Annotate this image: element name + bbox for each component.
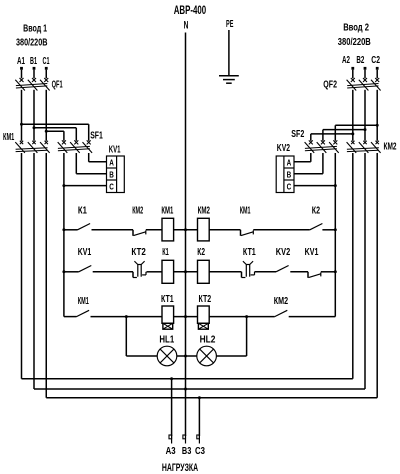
wire KM2 coil to KM1 contact	[209, 229, 240, 231]
contact КТ1 (time)	[241, 272, 243, 278]
lamp HL2	[197, 346, 217, 366]
relay KV1 box	[107, 156, 125, 193]
wire KV1 to KT2 contact	[93, 271, 133, 273]
junction tap A2	[351, 132, 354, 135]
wire tap C2 to SF2 pole3	[335, 124, 377, 126]
wire left control rail	[63, 153, 65, 317]
svg-text:380/220В: 380/220В	[338, 36, 371, 48]
breaker QF1	[15, 70, 49, 91]
breaker SF2	[305, 140, 339, 153]
coil KM1	[162, 218, 174, 241]
breaker QF2	[347, 70, 381, 91]
wire phase B2 vertical	[364, 90, 366, 141]
junction tap A1	[20, 123, 23, 126]
svg-text:В2: В2	[356, 55, 364, 66]
junction bus B3 drop	[184, 388, 187, 391]
ground PE line	[228, 30, 230, 76]
svg-text:KV2: KV2	[277, 143, 290, 154]
wire rail to KV2 C	[294, 185, 335, 187]
wire KV2 to KV1 contact	[290, 271, 308, 273]
contact КМ2 (NC)	[132, 230, 134, 236]
svg-text:KV2: KV2	[276, 247, 291, 258]
coil KT1 (time relay)	[162, 306, 174, 323]
contact K2 (NO)	[310, 224, 323, 230]
svg-text:N: N	[184, 20, 189, 32]
svg-text:К1: К1	[78, 206, 87, 217]
svg-text:HL1: HL1	[159, 335, 174, 346]
wire phase A1 vertical	[21, 90, 23, 141]
svg-text:В3: В3	[182, 445, 192, 457]
contact КМ1 (NC)	[240, 230, 242, 236]
wire tap B1 to SF1 pole2	[34, 127, 76, 129]
junction rail KV1 C	[62, 184, 65, 187]
node N vertical line	[185, 33, 187, 437]
svg-text:В: В	[109, 169, 114, 179]
svg-text:А1: А1	[17, 56, 25, 67]
junction N row3	[184, 315, 187, 318]
coil K1	[162, 260, 174, 283]
wire row2 rail to KV1	[64, 271, 79, 273]
junction rail row1 left	[62, 228, 65, 231]
contactor KM2 main contacts	[347, 141, 381, 153]
contact KV2 (NO)	[276, 266, 289, 272]
svg-text:KV1: KV1	[78, 247, 92, 258]
junction rail row1 right	[334, 228, 337, 231]
arrow B3	[183, 435, 186, 439]
svg-text:А: А	[287, 157, 292, 167]
svg-text:С: С	[287, 182, 292, 192]
junction tap C2	[376, 124, 379, 127]
junction N row1	[184, 228, 187, 231]
contact КМ1 aux (NO)	[77, 310, 90, 316]
svg-text:КМ2: КМ2	[132, 206, 143, 217]
svg-text:РЕ: РЕ	[226, 18, 233, 30]
wire KT2 coil to junction	[209, 316, 275, 318]
wire KM1 aux to junction	[91, 316, 163, 318]
contact K1 (NO)	[78, 224, 91, 230]
svg-text:Ввод 1: Ввод 1	[23, 22, 47, 34]
junction rail row2 right	[334, 270, 337, 273]
wire SF2 pole1 to KV2 A	[310, 153, 312, 162]
junction HL1 drop	[125, 315, 128, 318]
wire SF1 pole3 to KV1 A	[88, 153, 90, 162]
wire HL1 to N	[177, 355, 198, 357]
svg-text:КТ1: КТ1	[161, 294, 174, 305]
contact КМ2 aux (NO)	[275, 310, 288, 316]
svg-text:КТ2: КТ2	[131, 247, 146, 258]
junction N row2	[184, 270, 187, 273]
wire HL1 drop	[125, 317, 127, 356]
wire KM1 coil to N	[174, 229, 198, 231]
wire right control rail	[334, 153, 336, 317]
svg-text:КМ1: КМ1	[3, 132, 15, 143]
svg-text:АВР-400: АВР-400	[174, 5, 207, 17]
lamp HL1	[157, 346, 177, 366]
wire KT1 to KV2 contact	[255, 271, 277, 273]
svg-text:380/220В: 380/220В	[16, 37, 48, 49]
svg-text:КТ1: КТ1	[243, 247, 256, 258]
coil KT2 (time relay)	[198, 306, 210, 323]
svg-text:KV1: KV1	[109, 144, 121, 155]
svg-text:К2: К2	[197, 247, 205, 258]
svg-text:А3: А3	[166, 445, 176, 457]
contact КТ2 (time)	[132, 272, 134, 278]
junction bus A3 drop	[170, 377, 173, 380]
relay KV2 box	[276, 156, 294, 193]
wire rail to KV1 C	[64, 185, 107, 187]
svg-text:КМ1: КМ1	[78, 296, 89, 307]
svg-text:SF2: SF2	[291, 129, 304, 140]
svg-text:QF2: QF2	[323, 79, 337, 90]
junction tap B2	[364, 128, 367, 131]
contact KV1 (NO)	[79, 266, 92, 272]
svg-text:КМ1: КМ1	[161, 205, 173, 216]
wire K1 coil to N	[174, 271, 198, 273]
terminal C1	[45, 67, 48, 70]
svg-text:KV1: KV1	[305, 247, 319, 258]
wire tap B2 to SF2 pole2	[323, 129, 365, 131]
wire tap A2 to SF2 pole1	[311, 133, 353, 135]
wire phase C1 vertical	[45, 90, 47, 141]
wire load drop A3	[171, 379, 173, 436]
wire K1 to KM2 contact	[92, 229, 134, 231]
wire phase C2 vertical	[376, 90, 378, 141]
terminal A1	[20, 67, 23, 70]
junction bus C3 drop	[198, 396, 201, 399]
svg-text:С1: С1	[43, 56, 50, 67]
svg-text:КТ2: КТ2	[199, 294, 212, 305]
wire K2 to right rail	[322, 229, 335, 231]
svg-text:SF1: SF1	[90, 130, 103, 141]
wire phase A2 vertical	[352, 90, 354, 141]
terminal B2	[364, 67, 367, 70]
junction rail KV2 C	[334, 184, 337, 187]
terminal C2	[376, 67, 379, 70]
wire KM2 contact to KM1 coil	[146, 229, 162, 231]
svg-text:HL2: HL2	[200, 335, 216, 346]
svg-text:К1: К1	[162, 247, 169, 258]
wire row3 rail corner left	[64, 316, 77, 318]
svg-text:КМ2: КМ2	[384, 141, 397, 152]
svg-text:С2: С2	[371, 55, 380, 66]
svg-text:КМ2: КМ2	[274, 296, 289, 307]
svg-text:QF1: QF1	[52, 79, 63, 90]
junction N lamps	[184, 355, 187, 358]
svg-text:В: В	[287, 169, 292, 179]
wire KV1 NC to right rail	[321, 271, 336, 273]
junction rail row2 left	[62, 270, 65, 273]
wire KM2 aux to right rail corner	[289, 316, 336, 318]
contact KV1 (NC)	[307, 272, 309, 278]
wire HL2 riser	[216, 355, 247, 357]
wire KM1 contact to K2	[253, 229, 309, 231]
junction tap B1	[33, 126, 36, 129]
svg-text:К2: К2	[312, 206, 321, 217]
svg-text:Ввод 2: Ввод 2	[343, 22, 369, 34]
coil K2	[198, 260, 210, 283]
ground PE symbol	[219, 75, 239, 77]
wire SF1 pole2 to KV1 B	[75, 153, 77, 174]
wire tap C1 to SF1 pole1	[46, 130, 64, 132]
terminal A2	[351, 67, 354, 70]
junction HL2 riser	[245, 315, 248, 318]
wire load drop C3	[198, 398, 200, 436]
svg-text:В1: В1	[30, 56, 37, 67]
wire KT1 coil to N	[174, 316, 198, 318]
wire bus A3	[22, 378, 353, 380]
svg-text:А: А	[109, 157, 114, 167]
wire phase B1 vertical	[33, 90, 35, 141]
coil KM2	[198, 218, 210, 241]
wire KT2 to K1 coil	[147, 271, 163, 273]
arrow A3	[169, 435, 172, 439]
wire K2 coil to KT1 contact	[209, 271, 241, 273]
breaker SF1	[58, 140, 92, 153]
wire bus C3	[46, 397, 377, 399]
wire tap A1 to SF1 pole3	[22, 123, 89, 125]
arrow C3	[197, 435, 200, 439]
wire bus B3	[34, 388, 365, 390]
contactor KM1 main contacts	[15, 141, 49, 153]
svg-text:КМ1: КМ1	[240, 206, 251, 217]
svg-text:А2: А2	[342, 55, 350, 66]
svg-text:НАГРУЗКА: НАГРУЗКА	[162, 462, 198, 474]
wire SF2 pole2 to KV2 B	[322, 153, 324, 174]
terminal B1	[33, 67, 36, 70]
svg-text:С3: С3	[195, 445, 205, 457]
svg-text:С: С	[109, 182, 114, 192]
wire row1 rail to K1	[64, 229, 78, 231]
svg-text:КМ2: КМ2	[198, 205, 211, 216]
junction tap C1	[45, 130, 48, 133]
